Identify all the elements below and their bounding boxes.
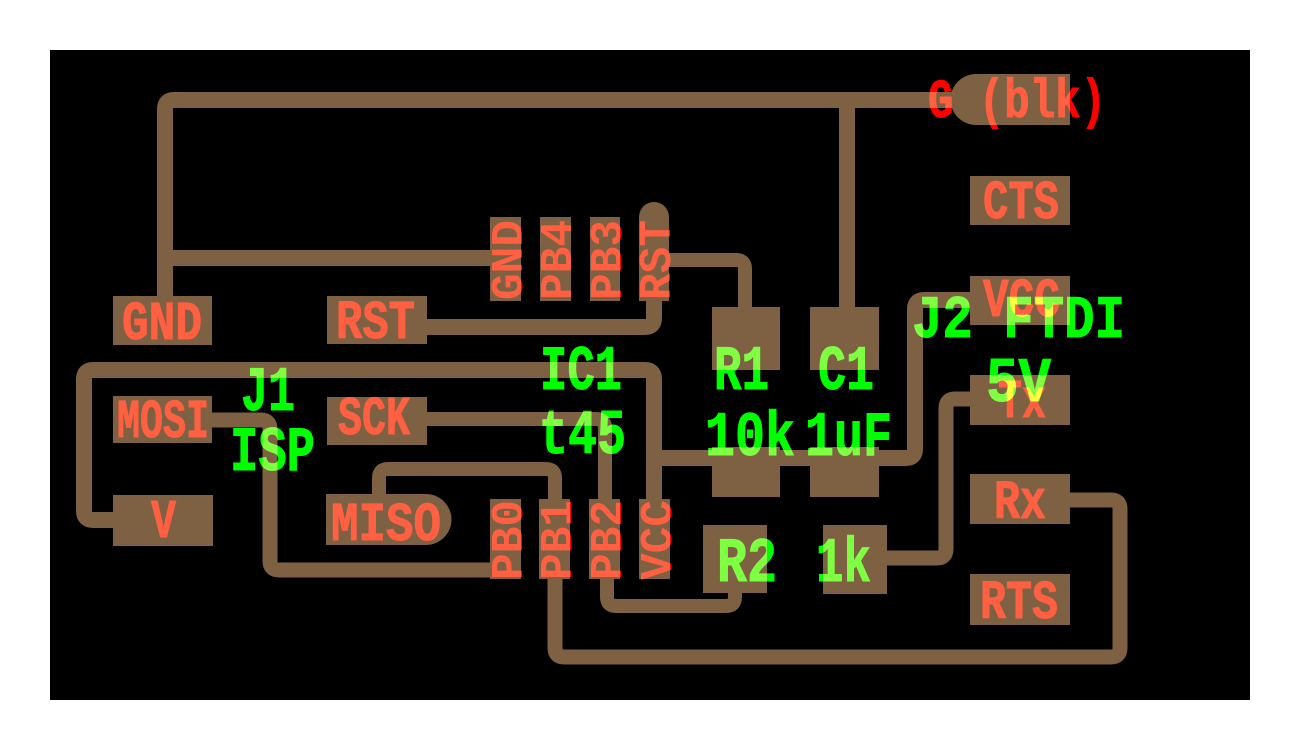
svg-text:1uF: 1uF: [805, 403, 892, 474]
pad IC1 GND (top row): [490, 217, 521, 301]
wire PB2 to R2 pad: [607, 576, 735, 606]
svg-text:RTS: RTS: [980, 572, 1058, 635]
pad MISO (J1, rounded right end): [326, 494, 452, 545]
svg-text:G (blk): G (blk): [928, 71, 1106, 134]
svg-text:PB2: PB2: [584, 500, 635, 580]
pad Tx (J2): [970, 375, 1070, 425]
wire RST: IC1 RST pad to R1 top pad: [655, 260, 745, 312]
svg-text:GND: GND: [122, 293, 202, 356]
wire GND drop to C1 top pad: [839, 100, 855, 330]
pad G blk (J2, rounded left end): [951, 74, 1071, 125]
wire MOSI: MOSI pad to IC1 PB0 pad: [210, 420, 506, 570]
wire 1k pad to Tx pad: [884, 399, 972, 558]
board background: [50, 50, 1250, 700]
wire SCK: J1 SCK pad to IC1 PB2 pad: [427, 419, 605, 505]
wire MISO: MISO pad to IC1 PB1 pad: [379, 469, 555, 505]
svg-text:PB3: PB3: [584, 220, 635, 300]
svg-text:VCC: VCC: [634, 500, 685, 580]
svg-text:IC1: IC1: [540, 337, 622, 408]
wire RST: J1 RST pad to IC1 RST pad: [427, 296, 654, 327]
svg-text:GND: GND: [485, 220, 536, 300]
svg-text:PB1: PB1: [534, 500, 585, 580]
svg-text:CTS: CTS: [983, 172, 1059, 235]
wire PB1 to Rx pad: [555, 500, 1120, 657]
svg-text:Rx: Rx: [994, 472, 1046, 535]
pad IC1 RST (top row, round top end): [639, 202, 669, 301]
pad V (J1): [113, 495, 213, 546]
pad GND (J1): [113, 296, 212, 345]
svg-text:5V: 5V: [986, 349, 1051, 420]
svg-text:MOSI: MOSI: [117, 391, 209, 454]
pad IC1 VCC (bottom row): [639, 499, 670, 579]
wire GND: left vertical + top horizontal to G pad: [165, 100, 958, 300]
wire GND branch to IC1 GND pad: [165, 250, 505, 266]
svg-text:SCK: SCK: [338, 388, 410, 451]
svg-text:V: V: [151, 491, 176, 554]
capacitor C1 bottom pad: [810, 447, 879, 497]
svg-text:J2 FTDI: J2 FTDI: [912, 288, 1125, 356]
pad IC1 PB0 (bottom row): [490, 499, 521, 579]
svg-text:RST: RST: [336, 292, 415, 355]
svg-text:10k: 10k: [705, 403, 795, 474]
resistor R2 left pad: [703, 525, 767, 593]
pad VCC (J2): [970, 276, 1070, 325]
pad IC1 PB4 (top row): [540, 217, 571, 301]
svg-text:1k: 1k: [816, 529, 871, 600]
svg-text:MISO: MISO: [331, 494, 441, 557]
pad IC1 PB2 (bottom row): [589, 499, 620, 579]
svg-text:PB4: PB4: [534, 220, 585, 300]
resistor R1 bottom pad: [712, 447, 780, 497]
svg-text:RST: RST: [633, 220, 684, 300]
pad RST (J1): [327, 296, 427, 344]
resistor R2 right pad (1k): [823, 525, 887, 594]
svg-text:R2: R2: [717, 529, 777, 600]
pad CTS (J2): [970, 176, 1070, 225]
resistor R1 top pad: [712, 307, 780, 370]
pad MOSI (J1): [113, 396, 212, 443]
pad IC1 PB3 (top row): [590, 217, 620, 301]
pad SCK (J1): [327, 397, 427, 445]
svg-text:ISP: ISP: [230, 418, 315, 489]
pad Rx (J2): [970, 474, 1070, 524]
svg-text:PB0: PB0: [485, 500, 536, 580]
capacitor C1 top pad: [810, 307, 879, 370]
svg-text:t45: t45: [539, 401, 626, 472]
wire VCC branch: R1/C1 bottoms to J2 VCC pad: [654, 300, 975, 458]
wire VCC: V pad loop to IC1 VCC pad: [84, 370, 654, 520]
svg-text:C1: C1: [818, 337, 874, 408]
pad IC1 PB1 (bottom row): [539, 499, 570, 579]
pad RTS (J2): [970, 574, 1070, 625]
svg-text:R1: R1: [714, 337, 769, 408]
